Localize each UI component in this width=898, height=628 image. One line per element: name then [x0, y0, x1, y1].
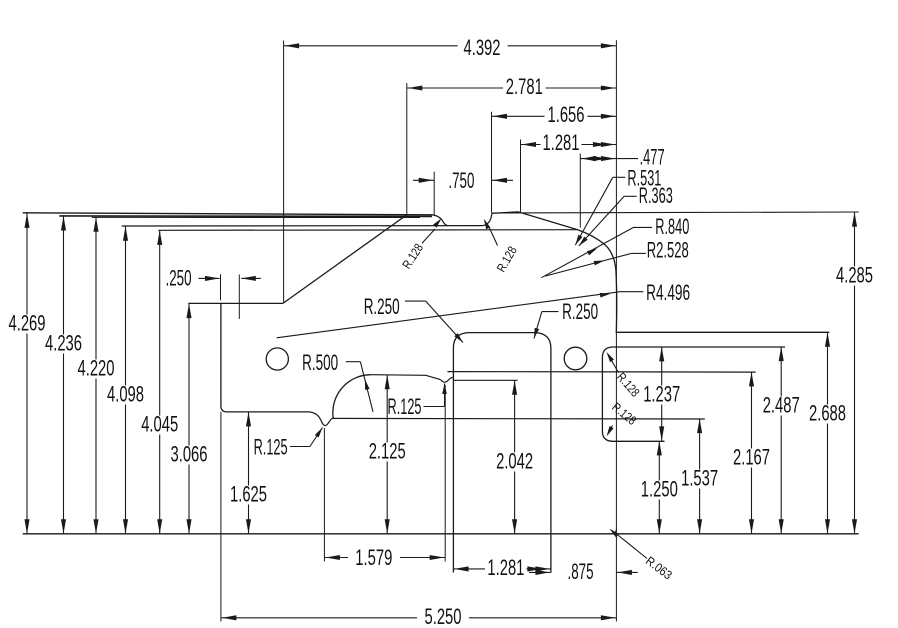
svg-text:.750: .750	[448, 168, 474, 193]
svg-text:2.781: 2.781	[506, 74, 543, 99]
svg-text:1.250: 1.250	[641, 477, 678, 502]
svg-text:1.281: 1.281	[543, 130, 580, 155]
svg-text:R.125: R.125	[388, 394, 422, 419]
svg-text:R.363: R.363	[639, 183, 673, 208]
svg-text:4.236: 4.236	[45, 331, 82, 356]
svg-text:R4.496: R4.496	[646, 280, 690, 305]
svg-text:R.250: R.250	[364, 294, 400, 319]
svg-text:1.537: 1.537	[681, 466, 718, 491]
svg-text:5.250: 5.250	[425, 604, 462, 628]
svg-text:4.098: 4.098	[107, 382, 144, 407]
svg-text:4.045: 4.045	[141, 412, 178, 437]
svg-text:2.167: 2.167	[733, 445, 770, 470]
svg-text:2.042: 2.042	[496, 449, 533, 474]
svg-text:4.392: 4.392	[464, 35, 501, 60]
svg-text:2.125: 2.125	[369, 439, 406, 464]
svg-text:.250: .250	[166, 265, 192, 290]
svg-text:1.281: 1.281	[487, 555, 524, 580]
svg-text:R.840: R.840	[655, 214, 689, 239]
svg-text:3.066: 3.066	[171, 442, 208, 467]
svg-text:2.487: 2.487	[763, 393, 800, 418]
svg-text:R.125: R.125	[254, 435, 288, 460]
svg-text:1.656: 1.656	[548, 102, 585, 127]
svg-text:1.625: 1.625	[230, 482, 267, 507]
svg-text:.875: .875	[568, 559, 594, 584]
svg-text:R2.528: R2.528	[647, 238, 689, 263]
svg-text:R.250: R.250	[562, 299, 598, 324]
svg-text:4.269: 4.269	[9, 311, 46, 336]
svg-text:4.220: 4.220	[78, 356, 115, 381]
svg-text:1.237: 1.237	[643, 382, 680, 407]
svg-text:2.688: 2.688	[809, 401, 846, 426]
svg-text:4.285: 4.285	[836, 263, 873, 288]
svg-text:R.500: R.500	[302, 350, 338, 375]
svg-text:1.579: 1.579	[355, 545, 392, 570]
